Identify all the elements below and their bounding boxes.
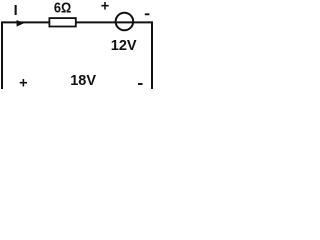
wire top horizontal (2, 21, 152, 23)
wire left vertical (1, 21, 3, 89)
label - of 18V (138, 83, 143, 85)
svg-text:I: I (14, 3, 18, 19)
svg-text:12V: 12V (111, 38, 137, 54)
svg-text:+: + (19, 76, 27, 89)
voltage source V1 (12V) circle (116, 13, 134, 31)
label - of 12V (145, 13, 150, 15)
svg-text:18V: 18V (70, 73, 96, 89)
svg-text:+: + (101, 0, 109, 15)
wire right vertical (151, 21, 153, 89)
current arrow I (17, 20, 24, 27)
svg-text:6Ω: 6Ω (54, 0, 72, 16)
resistor R (6 ohm) (49, 18, 75, 26)
